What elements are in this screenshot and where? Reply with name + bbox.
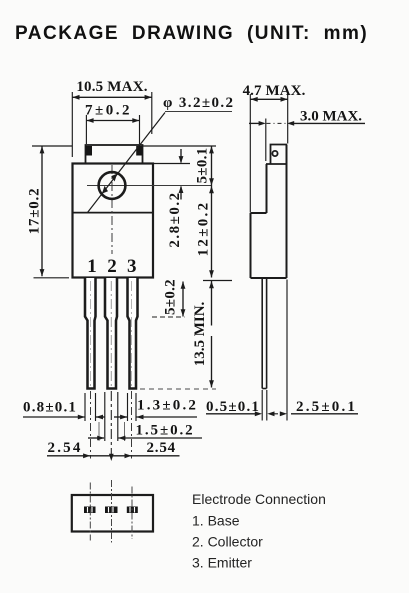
svg-text:2. Collector: 2. Collector xyxy=(192,534,263,550)
svg-text:1.3±0.2: 1.3±0.2 xyxy=(137,398,198,414)
svg-text:4.7 MAX.: 4.7 MAX. xyxy=(243,83,306,99)
svg-text:1. Base: 1. Base xyxy=(192,513,240,529)
svg-text:3. Emitter: 3. Emitter xyxy=(192,555,252,571)
svg-text:10.5 MAX.: 10.5 MAX. xyxy=(76,79,147,95)
svg-text:1.5±0.2: 1.5±0.2 xyxy=(136,423,195,439)
svg-text:13.5 MIN.: 13.5 MIN. xyxy=(192,301,208,366)
svg-text:12±0.2: 12±0.2 xyxy=(196,201,212,257)
svg-text:5±0.1: 5±0.1 xyxy=(195,148,211,184)
svg-text:2.8±0.2: 2.8±0.2 xyxy=(167,191,183,247)
svg-text:2.5±0.1: 2.5±0.1 xyxy=(296,399,357,415)
svg-text:3: 3 xyxy=(127,256,137,277)
svg-text:3.0 MAX.: 3.0 MAX. xyxy=(300,109,362,125)
svg-text:0.8±0.1: 0.8±0.1 xyxy=(23,400,77,416)
svg-text:7±0.2: 7±0.2 xyxy=(85,103,132,119)
svg-text:5±0.2: 5±0.2 xyxy=(163,279,179,315)
svg-text:17±0.2: 17±0.2 xyxy=(27,188,43,235)
svg-text:2.54: 2.54 xyxy=(48,440,83,456)
svg-text:2.54: 2.54 xyxy=(147,440,176,456)
svg-text:0.5±0.1: 0.5±0.1 xyxy=(206,399,260,415)
svg-text:φ 3.2±0.2: φ 3.2±0.2 xyxy=(163,95,234,111)
svg-text:1: 1 xyxy=(87,256,97,277)
svg-text:Electrode Connection: Electrode Connection xyxy=(192,491,326,507)
svg-text:2: 2 xyxy=(107,256,117,277)
